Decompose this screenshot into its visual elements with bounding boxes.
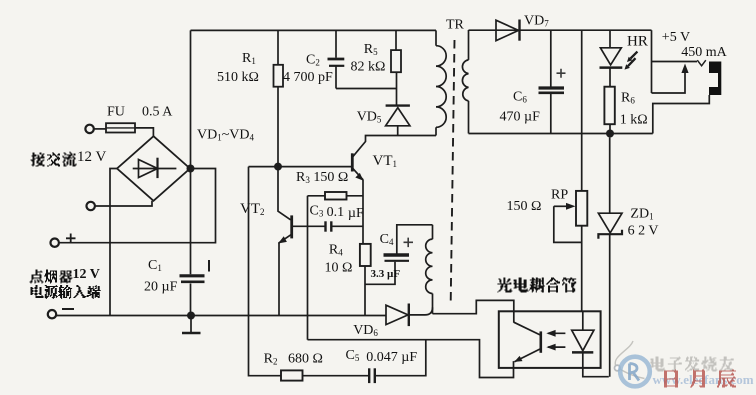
resistor R2 [281, 370, 303, 380]
wire VT1 emitter down [362, 180, 364, 244]
wire base node [249, 166, 352, 168]
HR light arrows [631, 52, 638, 59]
label photocoupler [497, 278, 576, 293]
wire VT2 base [293, 225, 326, 227]
wire [95, 201, 152, 206]
watermark red text [664, 370, 736, 388]
svg-text:510 kΩ: 510 kΩ [217, 70, 259, 85]
optocoupler box [499, 311, 601, 368]
capacitor C2 [335, 30, 337, 57]
capacitor C3 [324, 221, 326, 231]
TR primary winding [435, 30, 437, 45]
wire loop [652, 66, 686, 93]
diode VD5 [386, 104, 410, 106]
svg-text:12 V: 12 V [73, 267, 100, 282]
capacitor C4 [384, 253, 410, 256]
svg-text:470 µF: 470 µF [500, 110, 541, 125]
label jie-jiaoliu 12 V [31, 152, 77, 167]
watermark gray text [651, 357, 734, 372]
svg-text:4 700 pF: 4 700 pF [283, 70, 333, 85]
svg-text:0.5 A: 0.5 A [142, 105, 173, 120]
wire C5 to opto line [375, 340, 426, 376]
terminal plus [51, 239, 59, 247]
label - [62, 308, 74, 310]
output plug [709, 62, 721, 96]
fuse FU [106, 123, 135, 132]
capacitor C5 [368, 368, 370, 383]
wire +5V output [651, 30, 653, 93]
capacitor C6 [550, 30, 552, 87]
wire C2/R5 bottom tie [336, 88, 397, 90]
label power input line2 [31, 285, 101, 299]
label + [66, 234, 76, 244]
svg-text:10 Ω: 10 Ω [325, 261, 353, 276]
wire secondary bottom rail [469, 133, 653, 135]
wire [94, 128, 106, 130]
wire [303, 375, 369, 377]
VT2 emitter w/ arrow [279, 235, 291, 244]
feedback winding TR tertiary [432, 225, 434, 239]
transistor VT2 [290, 215, 293, 238]
left DC bus [190, 30, 192, 315]
diode VD6 [386, 305, 408, 324]
zener diode ZD1 [609, 138, 611, 214]
svg-text:FU: FU [107, 105, 125, 120]
diode inside bridge [133, 168, 177, 170]
node VT1 base junction dot [274, 163, 282, 171]
svg-text:150 Ω: 150 Ω [507, 199, 542, 214]
arrow up [681, 64, 688, 74]
svg-text:TR: TR [446, 18, 465, 33]
wire snubber left leg [249, 167, 282, 376]
wire opto collector line [433, 300, 514, 322]
svg-text:0.047 µF: 0.047 µF [366, 350, 417, 365]
label + [557, 69, 566, 78]
svg-text:VD1~VD4: VD1~VD4 [197, 128, 255, 143]
wire RP branch [581, 30, 583, 191]
node junction dot [606, 130, 614, 138]
svg-text:R3 150 Ω: R3 150 Ω [296, 170, 348, 185]
svg-text:µF: µF [348, 206, 364, 221]
opto phototransistor [539, 331, 542, 352]
opto light arrows [548, 332, 565, 334]
terminal minus [48, 310, 56, 318]
RP wiper arrow [554, 205, 568, 207]
wire plus to DC node [59, 169, 216, 243]
wire R3 left down to opto line [307, 196, 309, 340]
wire VT2 collector [278, 169, 291, 220]
ground [187, 312, 195, 320]
svg-text:0.1: 0.1 [327, 205, 345, 220]
terminal AC input 2 [87, 202, 95, 210]
wire [135, 128, 153, 136]
resistor R3 [308, 195, 326, 197]
wire plug return [653, 95, 710, 134]
svg-text:450 mA: 450 mA [681, 45, 727, 60]
VT1 emitter w/ arrow [353, 168, 363, 180]
wire VT2 emitter down [278, 243, 280, 316]
diode VD7 [496, 20, 519, 41]
terminal AC input 1 [85, 125, 93, 133]
wire VT1 collector to primary [353, 136, 436, 157]
wire bridge left vertex to minus rail [110, 169, 117, 316]
resistor R5 [395, 30, 397, 50]
wire opto emitter line [308, 340, 514, 378]
bottom rail (primary ground) [56, 315, 386, 317]
wire secondary top rail [469, 29, 652, 31]
resistor R4 [360, 244, 371, 266]
node DC+ junction dot [187, 165, 195, 173]
svg-text:+5 V: +5 V [662, 30, 690, 45]
LED HR [609, 30, 611, 48]
arrow v [697, 60, 706, 66]
svg-text:12 V: 12 V [77, 149, 106, 165]
TR secondary winding [468, 30, 470, 60]
svg-text:680 Ω: 680 Ω [288, 352, 323, 367]
svg-text:HR: HR [627, 34, 648, 50]
transistor VT1 [351, 153, 354, 171]
svg-text:82 kΩ: 82 kΩ [351, 60, 386, 75]
label + [404, 238, 414, 248]
bridge rectifier VD1-VD4 [117, 136, 190, 201]
svg-text:1 kΩ: 1 kΩ [620, 113, 648, 128]
label dianyanqi 12V line1 [30, 270, 73, 284]
svg-text:6 2 V: 6 2 V [628, 224, 659, 239]
potentiometer RP [576, 191, 587, 226]
svg-text:3.3 µF: 3.3 µF [371, 268, 401, 280]
svg-text:RP: RP [551, 188, 568, 203]
svg-text:20 µF: 20 µF [144, 280, 178, 295]
watermark logo [615, 341, 650, 386]
resistor R6 [604, 87, 614, 125]
transformer TR core [451, 40, 455, 302]
resistor R1 [277, 30, 279, 64]
capacitor C1 [180, 274, 205, 277]
wire top rail [191, 29, 437, 31]
opto LED [582, 311, 584, 330]
